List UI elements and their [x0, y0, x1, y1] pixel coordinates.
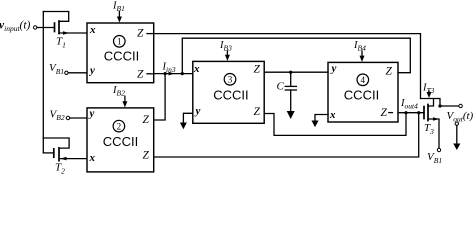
svg-text:x: x [193, 63, 200, 75]
wire block3 y to ground [183, 113, 192, 122]
transistor T2 [43, 138, 87, 161]
wire block4 Z- bottom to T3 gate (Iout4) [398, 112, 424, 114]
svg-text:y: y [88, 108, 95, 120]
svg-text:C: C [277, 80, 285, 92]
wire block4 x to ground [315, 115, 328, 121]
wire left vertical rail [42, 12, 44, 153]
transistor T1 [43, 12, 87, 35]
node VB1 terminal right [437, 148, 440, 151]
svg-text:CCCII: CCCII [213, 88, 248, 103]
svg-text:Z: Z [143, 150, 150, 162]
pin Z- dash U1 bottom [147, 73, 152, 75]
ground block4 x [312, 121, 319, 128]
node junction Vout [438, 104, 441, 107]
op-amp U1 CCCII box [87, 23, 154, 83]
node Vout terminal [459, 104, 462, 107]
svg-text:y: y [194, 105, 201, 117]
wire bias arrow IB1 [117, 11, 122, 22]
ground below capacitor [287, 111, 295, 119]
wire input to T1 gate [37, 27, 55, 29]
svg-text:CCCII: CCCII [103, 134, 138, 149]
transistor T3 [421, 99, 441, 149]
wire block1 Z- top long feedback to T3 drain [154, 34, 421, 99]
wire block3 Z top to block4 y [264, 71, 328, 73]
op-amp U4 CCCII box [328, 62, 398, 122]
svg-text:4: 4 [361, 75, 366, 85]
op-amp U1 number badge [114, 36, 126, 48]
wire block3 Z bottom to Iout4 node [264, 113, 406, 136]
svg-text:2: 2 [117, 121, 122, 131]
svg-text:Z: Z [137, 68, 144, 80]
ground Vout return [453, 144, 460, 151]
op-amp U3 number badge [224, 74, 236, 86]
svg-text:CCCII: CCCII [344, 88, 379, 103]
svg-text:Z: Z [386, 66, 393, 78]
svg-text:y: y [330, 63, 337, 75]
svg-text:Z: Z [381, 107, 388, 119]
wire current arrow IT3 [427, 91, 432, 98]
wire bias arrow IB2 [122, 96, 127, 107]
wire block1 Z- bottom to block3 x (Iin3 node) [154, 73, 193, 75]
capacitor C [285, 72, 296, 111]
svg-text:Z: Z [137, 28, 144, 40]
node junction Iin3-a [164, 72, 167, 75]
op-amp U3 CCCII box [193, 61, 264, 123]
current direction arrow Iin3 [169, 72, 175, 76]
svg-text:1: 1 [117, 37, 122, 47]
wire block2 Z bottom to Iout4 node [154, 113, 419, 157]
node junction cap [289, 71, 292, 74]
pin Z- dash U4 bottom [389, 112, 393, 114]
svg-text:x: x [89, 24, 96, 36]
op-amp U2 CCCII box [87, 108, 154, 172]
wire block2 Z top up to Iin3 node [154, 74, 165, 120]
ground block3 y [180, 123, 187, 130]
node junction Iin3-b [181, 72, 184, 75]
svg-text:Z: Z [254, 106, 261, 118]
svg-text:Z: Z [254, 64, 261, 76]
svg-text:x: x [329, 109, 336, 121]
node VB1 terminal left [65, 71, 87, 74]
node VB2 terminal [66, 116, 87, 119]
op-amp U4 number badge [357, 74, 369, 86]
wire bias arrow IB4 [360, 51, 365, 62]
svg-text:3: 3 [228, 75, 233, 85]
svg-text:y: y [88, 65, 95, 77]
pin Z- dash U1 top [147, 33, 152, 35]
node v_input terminal [34, 26, 37, 29]
svg-text:CCCII: CCCII [104, 48, 139, 63]
op-amp U2 number badge [113, 120, 125, 132]
node junction Iout4-b [417, 111, 420, 114]
svg-text:x: x [89, 152, 96, 164]
svg-text:Z: Z [143, 114, 150, 126]
wire T3 drain to Vout terminal [440, 105, 459, 107]
wire bias arrow IB3 [225, 51, 230, 61]
wire feedback block4 Z top to Iin3 node [182, 38, 410, 73]
node Vout return terminal [455, 122, 458, 144]
node junction Iout4-a [404, 111, 407, 114]
